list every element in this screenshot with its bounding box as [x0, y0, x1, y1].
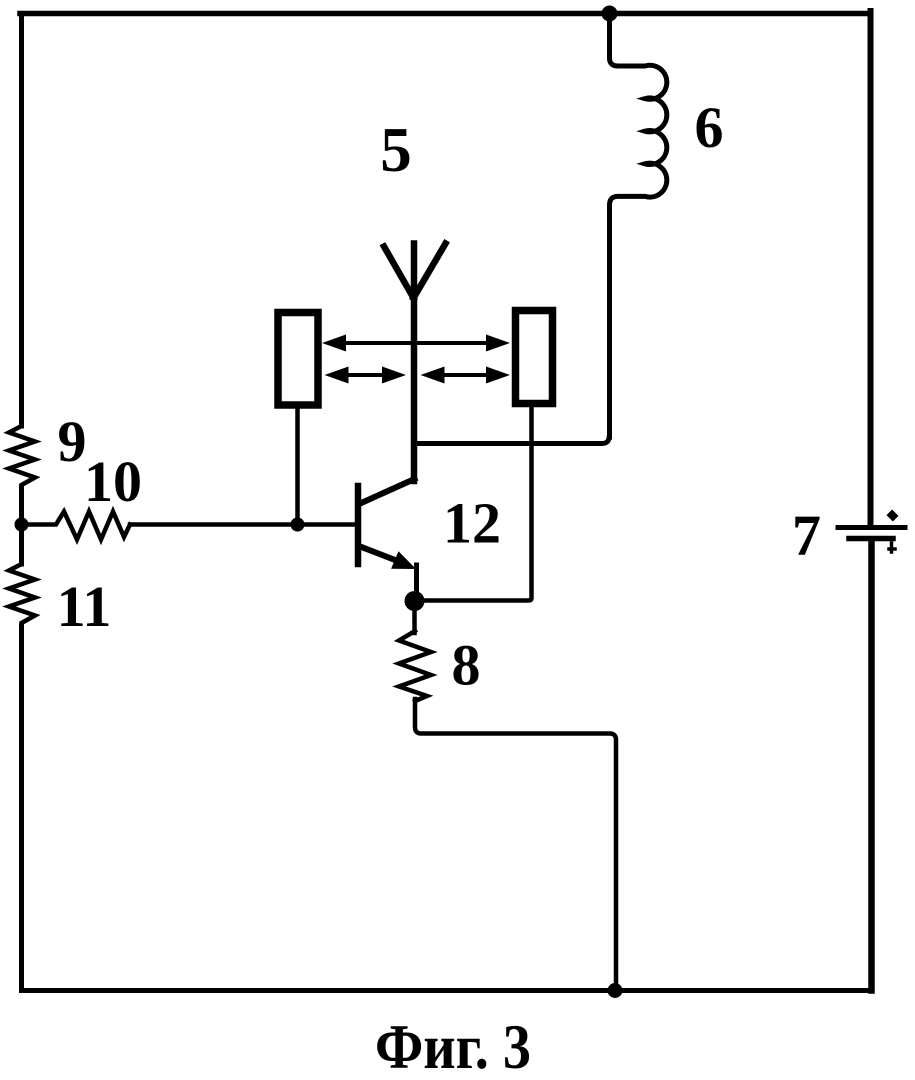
wire left lower: [19, 626, 24, 991]
inductor 6: [610, 14, 667, 438]
svg-text:6: 6: [695, 95, 724, 160]
antenna 5: [384, 244, 446, 482]
wire right plate to emitter: [415, 407, 532, 601]
arrowhead row2 outer-right: [486, 367, 510, 384]
svg-text:Фиг. 3: Фиг. 3: [375, 1011, 531, 1080]
svg-text:7: 7: [792, 503, 821, 568]
wire left upper: [19, 14, 24, 427]
battery 7 short plate: [849, 536, 893, 542]
wire base: [130, 522, 355, 527]
wire arrow row2 right: [431, 373, 499, 377]
wire inductor to collector: [415, 435, 610, 444]
svg-text:8: 8: [452, 633, 481, 698]
wire left plate lead: [295, 408, 300, 525]
resistor R11: [9, 562, 35, 627]
node base junction: [291, 518, 305, 532]
transistor 12 emitter arrowhead: [391, 551, 416, 569]
svg-text:12: 12: [443, 491, 501, 556]
resistor R9: [9, 424, 35, 488]
arrowhead row1 right: [486, 335, 510, 352]
resistor R8: [399, 631, 431, 701]
wire emitter node down: [412, 601, 417, 633]
capacitor plate right: [516, 311, 553, 404]
wire arrow row2 left: [336, 373, 396, 377]
battery 7 plus mark: [886, 509, 898, 521]
arrowhead row1 left: [322, 335, 346, 352]
svg-text:5: 5: [380, 115, 412, 185]
resistor R10: [22, 512, 131, 540]
arrowhead row2 center-left: [382, 367, 406, 384]
wire R8 bottom: [415, 699, 616, 991]
wire bottom: [22, 988, 870, 993]
wire left middle: [19, 487, 24, 564]
svg-text:10: 10: [84, 449, 142, 514]
node left junction: [15, 518, 29, 532]
arrowhead row2 center-right: [421, 367, 445, 384]
node top junction: [602, 6, 618, 22]
transistor 12 base bar: [355, 486, 362, 564]
wire right lower: [868, 540, 875, 991]
node emitter junction: [405, 591, 425, 611]
arrowheads: [322, 335, 510, 384]
svg-text:9: 9: [58, 409, 87, 474]
svg-text:11: 11: [57, 574, 112, 639]
battery 7 long plate: [838, 525, 905, 530]
wire right upper: [868, 11, 874, 526]
capacitor plate left: [278, 313, 318, 406]
node bottom junction: [608, 983, 623, 998]
arrowhead row2 outer-left: [325, 367, 349, 384]
wire arrow row1: [334, 341, 498, 345]
transistor 12 collector: [359, 479, 415, 504]
wire emitter to node: [414, 565, 419, 601]
wire top: [20, 11, 871, 17]
transistor 12 emitter: [359, 546, 404, 564]
battery 7 minus mark: [889, 543, 895, 552]
